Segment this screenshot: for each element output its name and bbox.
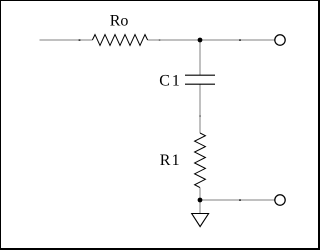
svg-text:R1: R1: [160, 152, 181, 169]
svg-text:C1: C1: [159, 73, 181, 90]
svg-text:Ro: Ro: [110, 13, 129, 30]
